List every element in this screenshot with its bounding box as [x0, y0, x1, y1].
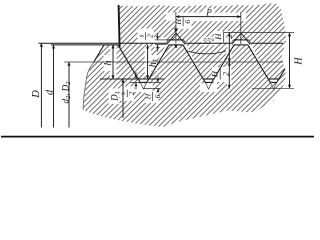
- H/2 top dimension: [224, 32, 243, 34]
- svg-text:6: 6: [153, 94, 162, 98]
- white box s/2 top + ext channel: [138, 29, 155, 44]
- axis line bottom: [1, 136, 314, 138]
- svg-text:h: h: [103, 61, 114, 66]
- s/2 bottom: [118, 90, 136, 97]
- white box s/2 bottom: [120, 87, 134, 102]
- svg-text:s: s: [136, 34, 145, 37]
- white box 55 deg: [201, 37, 217, 45]
- pitch line: [64, 61, 283, 63]
- H/2 bottom dimension: [228, 62, 230, 89]
- white box D1 label: [109, 89, 120, 105]
- svg-text:D: D: [31, 90, 42, 99]
- dimension D: [40, 43, 42, 127]
- svg-text:2: 2: [146, 34, 155, 38]
- bolt block (external thread, hatched): [83, 45, 286, 127]
- white channel h: [110, 47, 117, 78]
- extension lines left: [51, 44, 104, 46]
- minor dia extension: [100, 78, 164, 80]
- svg-text:H: H: [213, 33, 223, 41]
- dark profile lines: [119, 5, 120, 48]
- white box H/6 bottom: [146, 91, 159, 103]
- H/6 top dimension: [174, 28, 178, 33]
- apex triangles thin: [167, 33, 250, 44]
- white channel for P dimension: [166, 13, 246, 22]
- h1 dimension: [147, 45, 149, 79]
- s/2 top: [136, 32, 154, 39]
- nut block (internal thread, hatched): [119, 4, 287, 80]
- white channel for H/6 top label: [176, 15, 192, 29]
- dimension D1: [122, 79, 124, 118]
- white V-tip channels: [135, 83, 153, 92]
- svg-text:H: H: [210, 70, 220, 78]
- dimension d2,D2: [68, 62, 70, 128]
- svg-text:d: d: [45, 89, 56, 95]
- H/6 bottom dimension: [147, 81, 161, 83]
- bolt left freehand edge: [83, 62, 94, 110]
- h dimension: [112, 45, 114, 79]
- dimension d: [53, 45, 55, 128]
- white boxes H/2: [215, 31, 231, 43]
- svg-text:H: H: [143, 93, 152, 100]
- svg-text:2: 2: [127, 91, 136, 95]
- white channel h1: [145, 47, 152, 76]
- P dimension: [175, 12, 177, 35]
- svg-text:H: H: [174, 19, 183, 26]
- svg-text:P: P: [205, 8, 212, 18]
- H dimension right: [243, 32, 294, 34]
- svg-text:6: 6: [183, 20, 192, 24]
- bottom V tips thin: [140, 82, 277, 89]
- svg-text:H: H: [294, 57, 305, 66]
